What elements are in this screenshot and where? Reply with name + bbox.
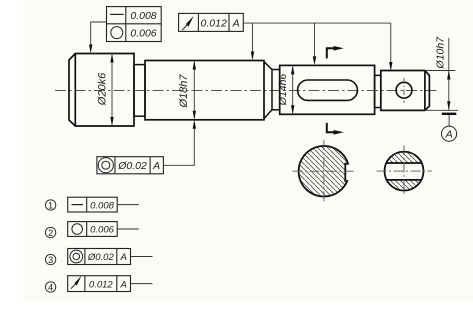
- legend 3 tail: [131, 256, 153, 258]
- circularity symbol: [111, 27, 123, 39]
- concentricity symbol: [98, 158, 113, 173]
- feature control frame concentricity 0.02 A (middle): [97, 157, 163, 174]
- main shaft centerline: [55, 90, 438, 92]
- runout symbol: [182, 16, 194, 30]
- straightness symbol: [110, 13, 124, 15]
- svg-text:Ø14h6: Ø14h6: [277, 74, 289, 107]
- dimension D18h7: [178, 61, 196, 120]
- legend item 4 frame: [68, 276, 131, 292]
- legend item 1 circled number: [45, 200, 55, 210]
- hole section chords: [386, 162, 421, 164]
- legend 2 tail: [117, 228, 139, 230]
- shaft section D10h7: [381, 71, 430, 111]
- leader from concentricity frame: [163, 128, 194, 165]
- svg-text:A: A: [120, 279, 127, 290]
- legend 1 straightness symbol: [72, 204, 84, 206]
- shaft section D18h7: [145, 61, 264, 120]
- dimension D10h7 with extension lines: [425, 36, 458, 111]
- svg-text:Ø10h7: Ø10h7: [434, 36, 446, 70]
- neck between D20k6 and D18h7: [134, 65, 145, 117]
- svg-text:A: A: [120, 252, 127, 263]
- legend item 2 frame: [68, 222, 118, 237]
- svg-text:Ø20k6: Ø20k6: [97, 72, 109, 106]
- svg-text:2: 2: [48, 228, 53, 238]
- svg-text:0.006: 0.006: [90, 225, 114, 236]
- svg-text:A: A: [445, 129, 453, 141]
- legend item 1 frame: [68, 197, 118, 212]
- cross-section through keyway: outline: [299, 146, 348, 197]
- dimension D20k6: [97, 54, 114, 127]
- svg-text:0.012: 0.012: [89, 279, 113, 290]
- cross-section through hole: outline: [385, 152, 424, 191]
- svg-text:A: A: [232, 18, 240, 30]
- svg-text:Ø0.02: Ø0.02: [117, 160, 147, 172]
- shaft section D20k6 outline: [69, 54, 134, 127]
- svg-text:Ø18h7: Ø18h7: [178, 74, 190, 109]
- leader from top-left frame: [91, 22, 107, 45]
- cross hole circle: [396, 82, 412, 98]
- cross-section through keyway: hatch: [299, 146, 348, 197]
- svg-text:0.008: 0.008: [90, 200, 114, 211]
- svg-text:0.008: 0.008: [130, 10, 156, 22]
- svg-text:4: 4: [48, 282, 53, 292]
- legend 2 circularity symbol: [72, 224, 83, 235]
- legend item 3 frame: [68, 249, 131, 265]
- svg-text:Ø0.02: Ø0.02: [87, 252, 115, 263]
- legend item 3 circled number: [45, 254, 55, 264]
- datum A symbol: [442, 114, 457, 142]
- feature control frame straightness/circularity (top-left): [107, 7, 162, 42]
- legend item 4 circled number: [45, 282, 55, 292]
- leader from runout frame with three arrows: [243, 22, 390, 24]
- svg-text:1: 1: [48, 200, 53, 210]
- svg-text:3: 3: [48, 255, 53, 265]
- svg-text:A: A: [152, 160, 160, 172]
- section cut mark upper: [327, 46, 344, 58]
- legend item 2 circled number: [45, 227, 55, 237]
- legend 3 concentricity symbol: [70, 250, 83, 263]
- legend 1 tail: [117, 204, 139, 206]
- hole section centerlines: [377, 170, 432, 172]
- svg-text:0.012: 0.012: [201, 18, 227, 30]
- legend 4 runout symbol: [71, 276, 82, 289]
- cross hole vertical centerline: [403, 78, 405, 103]
- chamfer cone after D18h7: [264, 62, 272, 119]
- shaft section D14h6: [280, 65, 375, 114]
- neck between D18h7 and D14h6: [272, 70, 280, 110]
- legend 4 tail: [131, 283, 153, 285]
- svg-text:0.006: 0.006: [130, 28, 156, 40]
- dimension D14h6: [277, 65, 295, 114]
- keyway section centerlines: [293, 170, 357, 172]
- keyway slot: [298, 80, 358, 100]
- section cut mark lower: [327, 123, 344, 135]
- feature control frame runout 0.012 A (top): [179, 13, 244, 31]
- neck between D14h6 and D10h7: [375, 75, 381, 107]
